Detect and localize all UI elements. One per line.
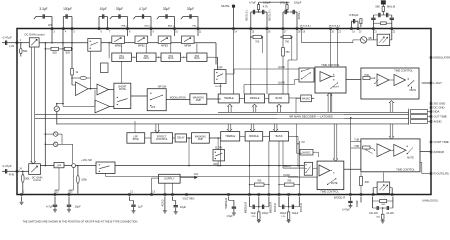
- svg-text:BASS-R: BASS-R: [274, 203, 277, 212]
- pin 19 (top): [350, 28, 352, 30]
- resistor 560 to ground: [382, 208, 384, 214]
- op-amp 2 (TC R): [394, 144, 406, 156]
- svg-text:CONT TIME: CONT TIME: [434, 140, 449, 144]
- svg-text:QUAD: QUAD: [283, 174, 290, 177]
- capacitor 10uF (supply): [172, 197, 174, 201]
- svg-text:(ANALOG/S): (ANALOG/S): [422, 199, 438, 203]
- svg-text:12: 12: [130, 192, 133, 194]
- pin 7 (top): [107, 28, 109, 30]
- wire pin8 down: [127, 30, 129, 36]
- pin 1 (left, L-IN): [16, 42, 18, 44]
- latch arrow into TC R: [389, 124, 393, 139]
- svg-text:21: 21: [374, 31, 377, 33]
- latch down-arrow 3: [273, 124, 277, 132]
- block BASS (L): [269, 94, 289, 103]
- svg-text:0.47µF: 0.47µF: [3, 164, 12, 168]
- svg-text:TDB: TDB: [354, 146, 359, 148]
- wire pin4 down: [62, 30, 64, 104]
- capacitor (right of node): [386, 13, 388, 17]
- svg-text:560: 560: [375, 4, 380, 8]
- svg-text:MCA: MCA: [168, 57, 174, 60]
- wire vca out: [194, 42, 216, 44]
- pin 6 (top): [98, 28, 100, 30]
- pin (bottom): [278, 194, 280, 196]
- svg-text:14: 14: [234, 31, 237, 33]
- down-arrow into EFFECT CONTROL: [155, 124, 159, 133]
- current-source circle 2: [45, 144, 47, 146]
- svg-text:10µF: 10µF: [180, 205, 187, 209]
- pin 24 (left, R-IN): [16, 170, 18, 172]
- wire vertical between TC blocks: [350, 118, 352, 194]
- svg-text:4.7µF: 4.7µF: [249, 0, 256, 4]
- svg-text:LPF: LPF: [151, 106, 156, 109]
- svg-text:OFF: OFF: [218, 68, 223, 70]
- wire vertical to LPF block: [134, 121, 136, 133]
- svg-text:21: 21: [338, 31, 341, 33]
- ground: [67, 209, 71, 211]
- wire pin9 down: [150, 30, 152, 36]
- pin (bottom) 30: [349, 194, 351, 196]
- svg-text:MUTE: MUTE: [333, 87, 340, 89]
- pin (right) R-OUT(L/R): [430, 173, 432, 175]
- pin (right) SIG GND: [430, 103, 432, 105]
- svg-text:15: 15: [252, 31, 255, 33]
- svg-text:820: 820: [66, 50, 71, 54]
- MASKING AMP block (R): [192, 133, 210, 144]
- DELAY block: [175, 134, 186, 142]
- pin (bottom) 31: [360, 194, 362, 196]
- svg-text:Vref: Vref: [194, 173, 199, 176]
- VREF arrow: [180, 177, 194, 179]
- wire TDB (R): [351, 147, 361, 149]
- wire masking amp down: [188, 138, 190, 166]
- svg-text:control: control: [33, 178, 41, 182]
- svg-text:750: 750: [285, 51, 290, 54]
- svg-text:TIME CONTROL: TIME CONTROL: [396, 168, 415, 171]
- wire LPF down to pin: [58, 168, 60, 190]
- svg-text:4: 4: [65, 31, 67, 33]
- svg-text:560: 560: [381, 204, 385, 206]
- ground: [257, 219, 261, 221]
- svg-text:MUTE: MUTE: [221, 4, 229, 8]
- svg-text:MFB2: MFB2: [138, 44, 145, 48]
- network decay (bottom right): [372, 197, 374, 209]
- resistor 750 (on pin17 feed): [282, 48, 285, 57]
- svg-text:10µF: 10µF: [75, 205, 82, 209]
- label NR MAIN DECODER LATCHES: [277, 115, 344, 119]
- block BASS (R): [270, 132, 289, 141]
- pin 20 (top): [357, 28, 359, 30]
- TIME CONTROL block (large, R): [361, 139, 420, 172]
- svg-text:0.47µF: 0.47µF: [342, 208, 350, 211]
- pin (bottom): [249, 194, 251, 196]
- svg-text:820: 820: [53, 50, 58, 54]
- detector box (bottom right): [377, 182, 390, 193]
- VCA element MFB3: [158, 36, 171, 44]
- svg-text:13: 13: [152, 192, 155, 194]
- svg-text:MODULA-1: MODULA-1: [300, 24, 312, 27]
- op-amp A1: [76, 82, 89, 96]
- wire BASS out right: [289, 97, 301, 99]
- wire summing node down to pin: [73, 168, 75, 191]
- capacitor (vertical, left leg): [371, 17, 375, 19]
- svg-text:17: 17: [284, 31, 287, 33]
- svg-text:100µF: 100µF: [292, 213, 299, 215]
- svg-text:THE SWITCHES ARE SHOWN IN THE: THE SWITCHES ARE SHOWN IN THE POSITION O…: [23, 220, 138, 224]
- wires detector box (bottom): [382, 173, 384, 183]
- resistor 600 (below TC R): [360, 173, 362, 177]
- resistor R-A 4.7k: [258, 10, 260, 12]
- pin (bottom) VREG: [186, 194, 188, 196]
- svg-text:1: 1: [20, 40, 22, 42]
- pin 22 (top): [391, 28, 393, 30]
- svg-text:MCA: MCA: [143, 57, 149, 60]
- svg-text:3: 3: [53, 31, 55, 33]
- wire TUB (R): [351, 141, 361, 143]
- DC GAIN control block (R): [29, 164, 41, 175]
- small block (left of P61): [101, 63, 109, 73]
- svg-text:100k: 100k: [81, 178, 87, 182]
- svg-text:100µF: 100µF: [294, 0, 302, 4]
- pin (bottom) 23: [54, 194, 56, 196]
- pin 4 (top): [62, 28, 64, 30]
- svg-text:R-IN: R-IN: [9, 173, 15, 177]
- pin (bottom) 25: [68, 194, 70, 196]
- svg-text:MUTE: MUTE: [410, 90, 417, 92]
- wire TREBLE-R down: [219, 141, 221, 166]
- wire R-IN to block: [18, 170, 29, 172]
- svg-text:50k: 50k: [23, 49, 28, 53]
- pin 19a (top, modulator-1): [301, 28, 303, 30]
- svg-text:560: 560: [376, 217, 380, 219]
- svg-text:7: 7: [109, 31, 111, 33]
- pin (bottom): [268, 194, 270, 196]
- wire modulator feed: [302, 42, 353, 44]
- svg-text:MASKC: MASKC: [302, 98, 311, 101]
- svg-text:3.3µF: 3.3µF: [39, 7, 47, 11]
- svg-text:QUAD: QUAD: [278, 82, 285, 85]
- svg-text:2.2k: 2.2k: [251, 216, 256, 218]
- svg-text:18: 18: [298, 31, 301, 33]
- latch arrow into small TC L: [327, 93, 331, 112]
- svg-text:MCA: MCA: [119, 57, 125, 60]
- svg-text:10µF: 10µF: [251, 213, 257, 215]
- svg-text:1.5µF: 1.5µF: [226, 215, 233, 218]
- svg-text:20: 20: [359, 31, 362, 33]
- pin 10 (top): [174, 28, 176, 30]
- summing node (circle): [64, 165, 72, 167]
- svg-text:MID-L: MID-L: [145, 25, 152, 27]
- current-source circle 1: [45, 133, 47, 135]
- capacitor (left of node): [378, 13, 380, 17]
- svg-text:780: 780: [287, 180, 292, 183]
- resistor 50k (R, oval): [22, 171, 24, 173]
- LPF block (R path): [54, 163, 64, 168]
- feedback resistor 1k: [71, 69, 74, 76]
- svg-text:SUPPLY: SUPPLY: [164, 177, 175, 181]
- network group A (MIDDLE-L filter): [250, 12, 252, 28]
- svg-text:TUB: TUB: [354, 140, 359, 142]
- resistor 8.2k (a): [51, 47, 59, 50]
- pin 15 (top): [250, 28, 252, 30]
- pin (right) CONT TIME: [430, 141, 432, 143]
- SUPPLY block: [159, 174, 181, 183]
- MUTE switch (small TC R): [327, 184, 328, 185]
- capacitor 1uF to ground: [129, 197, 131, 201]
- svg-text:OUT TIME: OUT TIME: [434, 114, 447, 118]
- svg-text:0.56µF: 0.56µF: [349, 13, 358, 17]
- svg-text:LPF: LPF: [48, 25, 53, 27]
- ground: [232, 212, 236, 214]
- EFFECT CONTROL block: [151, 133, 173, 144]
- latch up-arrow 2: [252, 104, 256, 112]
- svg-text:100µF: 100µF: [63, 7, 72, 11]
- wire A1/A2 junction: [94, 90, 96, 106]
- svg-text:MODULA-2: MODULA-2: [329, 24, 341, 27]
- wire QUAD (R lower): [288, 176, 317, 178]
- svg-text:AGND: AGND: [161, 199, 164, 206]
- svg-text:SLOW: SLOW: [215, 147, 223, 150]
- SLOW switch block: [213, 150, 225, 161]
- resistor 560 (horizontal): [373, 22, 380, 24]
- pin (bottom) 13: [151, 194, 153, 196]
- svg-text:MIDDLE: MIDDLE: [249, 134, 259, 138]
- svg-text:(MOD)R: (MOD)R: [434, 150, 444, 154]
- wire switch box to A1 node: [90, 51, 92, 78]
- resistor from +B: [382, 4, 384, 6]
- resistor 780 (internal, bottom): [278, 141, 280, 194]
- wire split to op-amps: [108, 42, 110, 44]
- svg-text:MFB4: MFB4: [184, 44, 191, 48]
- wire pin3 down: [51, 30, 53, 43]
- wire node: [373, 14, 391, 16]
- svg-text:FBL: FBL: [192, 25, 197, 27]
- wire pin11 down: [197, 30, 199, 36]
- pin (bottom): [288, 194, 290, 196]
- pin 5 (top): [71, 28, 73, 30]
- switch block (R small): [304, 162, 312, 175]
- top rail wire: [259, 1, 290, 3]
- svg-text:4.7µF: 4.7µF: [46, 205, 53, 209]
- resistor (to gnd): [288, 207, 290, 212]
- wire down to block: [145, 44, 147, 54]
- pin (bottom) 12: [129, 194, 131, 196]
- svg-text:33µF: 33µF: [187, 7, 194, 11]
- resistor 780 (internal, bottom): [249, 141, 251, 194]
- MUTE switch (TC L): [408, 78, 409, 79]
- wire QUAD (R upper): [283, 167, 304, 169]
- internal rail resistor a: [251, 36, 253, 38]
- svg-text:DC GAIN control: DC GAIN control: [25, 32, 45, 36]
- pin 11 (top): [197, 28, 199, 30]
- block P63 MCA: [161, 53, 181, 61]
- latch output box 2: [411, 115, 428, 119]
- bus line 3: [35, 118, 409, 120]
- svg-text:MIDDLE-L: MIDDLE-L: [269, 9, 272, 21]
- wire pin down to TC block 2: [337, 30, 339, 67]
- switch box (pre, L): [299, 68, 314, 82]
- svg-text:780: 780: [257, 180, 262, 183]
- internal rail resistor b: [281, 36, 283, 38]
- pin 17 (top): [282, 28, 284, 30]
- svg-text:0.47µF: 0.47µF: [3, 36, 12, 40]
- switch block (upper, NR select): [214, 70, 226, 84]
- node (L path): [45, 42, 47, 44]
- ground (AGND): [163, 210, 167, 212]
- wire QUAD (lower): [244, 84, 295, 86]
- svg-text:MCA: MCA: [194, 57, 200, 60]
- latch bus end bracket: [408, 109, 410, 125]
- wire pin18 down: [296, 30, 298, 60]
- wire R path main: [115, 165, 304, 167]
- svg-text:MODULATOR: MODULATOR: [434, 55, 450, 59]
- +B supply square: [381, 1, 385, 5]
- svg-text:TRB-L: TRB-L: [121, 25, 128, 27]
- svg-text:760: 760: [255, 40, 260, 43]
- wire block to node: [39, 42, 88, 44]
- pin (right) DC GND: [430, 107, 432, 109]
- svg-text:TREBLE: TREBLE: [225, 134, 235, 138]
- wire pin5 down: [71, 30, 73, 69]
- svg-text:LPF: LPF: [57, 165, 62, 168]
- wire down to block: [170, 44, 172, 54]
- TIME CONTROL block (small, R): [317, 161, 344, 190]
- wire pin17 down: [282, 30, 284, 48]
- svg-text:+VOL NR: +VOL NR: [81, 159, 92, 162]
- op-amp 1 (TC L): [377, 74, 389, 86]
- svg-text:BASS: BASS: [276, 134, 283, 138]
- svg-text:BASS-R: BASS-R: [300, 203, 303, 212]
- svg-text:4.7µF: 4.7µF: [139, 7, 147, 11]
- wire MUTE pin down: [233, 30, 235, 94]
- svg-text:10: 10: [175, 31, 178, 33]
- ground: [287, 219, 291, 221]
- svg-text:AGND: AGND: [434, 119, 442, 123]
- latch arrow into TC L: [389, 101, 393, 113]
- latch up-arrow 1: [228, 104, 232, 112]
- wire vertical node to R path: [44, 43, 46, 166]
- svg-text:50k: 50k: [25, 176, 30, 180]
- network group B (BASS-L filter): [282, 12, 284, 28]
- svg-text:RAMP: RAMP: [356, 200, 359, 207]
- pin (bottom) 2: [21, 194, 23, 196]
- svg-text:NR SW: NR SW: [158, 84, 167, 88]
- capacitor 0.47uF (bottom right): [349, 197, 351, 201]
- VCA element MFB4: [181, 36, 194, 44]
- svg-text:TREBLE: TREBLE: [224, 96, 234, 100]
- op-amp A3 (buffer): [95, 100, 110, 113]
- svg-text:7M: 7M: [301, 142, 304, 144]
- gain control arrow (DC GAIN 1 to DC GAIN 2): [31, 47, 36, 164]
- TIME CONTROL block (small, L): [315, 67, 346, 93]
- NR switch block (LPF): [147, 89, 166, 111]
- svg-text:11: 11: [199, 31, 202, 33]
- switch block (R path): [96, 162, 115, 174]
- MASKC block (L): [301, 95, 312, 102]
- wire pin15 down: [250, 30, 252, 94]
- bus line 4: [57, 123, 409, 125]
- resistor R-B: [286, 10, 288, 12]
- MUTE switch (TC R): [407, 146, 408, 147]
- svg-text:16: 16: [268, 31, 271, 33]
- wire block out: [40, 165, 54, 167]
- block MIDDLE (L): [245, 94, 265, 103]
- pin (right) L-OUT: [430, 82, 432, 84]
- svg-text:10µF: 10µF: [100, 7, 107, 11]
- ground: [53, 209, 57, 211]
- svg-text:NDA: NDA: [434, 109, 440, 113]
- svg-text:100–RN: 100–RN: [369, 213, 378, 215]
- svg-text:6: 6: [100, 31, 102, 33]
- latch output box 3: [411, 120, 428, 124]
- wire small TC L out: [346, 78, 361, 80]
- resistor 100k (oval): [77, 165, 79, 167]
- op-amp 1 (TC R): [377, 144, 391, 157]
- svg-text:100µF: 100µF: [262, 213, 269, 215]
- svg-text:VOLT REG: VOLT REG: [182, 198, 194, 201]
- svg-text:CONTROL: CONTROL: [156, 138, 169, 141]
- svg-text:L-OUT: L-OUT: [434, 81, 443, 85]
- transistor (top right): [360, 37, 366, 43]
- svg-text:MIDDLE-R: MIDDLE-R: [270, 202, 272, 214]
- pin (bottom) 32: [372, 194, 374, 196]
- pin (right) NDA: [430, 111, 432, 113]
- svg-text:(BH4): (BH4): [133, 138, 140, 141]
- svg-text:DELAY: DELAY: [177, 137, 185, 140]
- svg-text:600: 600: [365, 181, 370, 184]
- svg-text:25: 25: [70, 192, 73, 194]
- pin (right) OUT TIME: [430, 116, 432, 118]
- latch down-arrow 2: [250, 124, 254, 132]
- block TREBLE (R): [221, 132, 240, 141]
- pin (bottom) 33: [391, 194, 393, 196]
- block P64 MCA: [187, 53, 207, 61]
- bus line 1 (NR decode latches): [218, 111, 409, 113]
- wire current sources to summing node: [61, 134, 63, 144]
- pin 19c (top): [337, 28, 339, 30]
- svg-text:TIME CONTROL: TIME CONTROL: [320, 190, 339, 193]
- block P62 MCA: [136, 53, 156, 61]
- svg-text:L-IN: L-IN: [9, 44, 14, 48]
- op-amp (inside small TC R): [319, 165, 330, 176]
- svg-text:1k: 1k: [76, 70, 79, 74]
- resistor (small, vertical): [360, 19, 362, 24]
- pin 8 (top): [127, 28, 129, 30]
- pin 14 (top): [233, 28, 235, 30]
- TIME CONTROL block (large, L): [361, 68, 419, 99]
- pin (right) (MOD)R: [430, 151, 432, 153]
- wire down to block: [121, 44, 123, 54]
- MASKING AMP block: [190, 94, 207, 105]
- wire pin down to TC block: [330, 30, 332, 67]
- IC outline U1: [17, 29, 431, 195]
- svg-text:33µF: 33µF: [163, 7, 170, 11]
- LPF (BH4) block: [127, 133, 145, 144]
- svg-text:2.2k: 2.2k: [281, 216, 286, 218]
- op-amp 2 (TC L): [394, 74, 406, 85]
- svg-text:23: 23: [56, 192, 59, 194]
- svg-text:MUTE: MUTE: [331, 183, 338, 185]
- svg-text:100µF: 100µF: [280, 213, 287, 215]
- svg-text:MFB1: MFB1: [115, 44, 122, 48]
- pin (right) MODULATOR: [430, 57, 432, 59]
- svg-text:TREBLE-R: TREBLE-R: [226, 197, 228, 209]
- op-amp A2 (buffer): [97, 84, 109, 95]
- resistor (to gnd): [258, 207, 260, 212]
- SHORT MUTE switch block: [114, 83, 131, 108]
- svg-text:19: 19: [352, 31, 355, 33]
- block MIDDLE (R): [245, 132, 263, 141]
